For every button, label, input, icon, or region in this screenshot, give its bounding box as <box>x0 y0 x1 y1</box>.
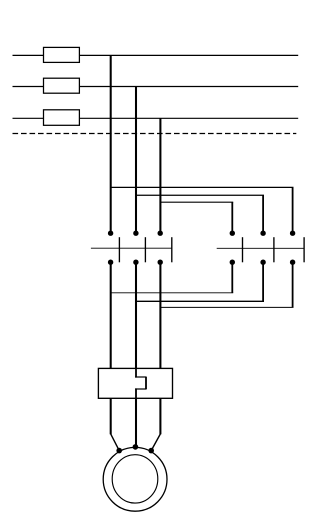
node: KM2 pole 1 top terminal <box>230 231 235 236</box>
wire: KM1 pole 2 output down to overload relay <box>135 262 137 369</box>
contactor KM1 pole 1 blade <box>118 237 120 262</box>
wire: phase B heater bump vertical (upper) <box>135 368 137 377</box>
wire: KM2 pole 3 output drop <box>292 262 294 307</box>
node: KM1 pole 3 top terminal <box>158 231 163 236</box>
contactor KM2 pole 1 blade <box>242 237 244 262</box>
wire: KM2 pole 2 output drop <box>262 262 264 301</box>
wire: branch L1 drop to KM2 pole 3 <box>292 187 294 233</box>
wire: L3 drop to contactor KM1 pole 3 <box>159 118 161 233</box>
contactor KM2 pole 2 blade <box>273 237 275 262</box>
node: KM1 pole 2 bottom terminal <box>133 260 138 265</box>
phase line L3 <box>13 117 299 119</box>
overload relay FR box <box>98 368 172 398</box>
motor M inner circle <box>112 455 158 503</box>
phase line L1 <box>13 54 299 56</box>
node: KM1 pole 1 bottom terminal <box>108 260 113 265</box>
contactor KM2 linkage bar <box>217 247 304 249</box>
wire: branch L2 across to KM2 pole 2 <box>136 194 264 196</box>
wire: motor lead T3 vertical <box>159 398 161 434</box>
wire: phase B heater bump bottom <box>135 388 147 390</box>
wire: motor lead T2 <box>135 398 137 447</box>
fuse F3 <box>44 110 80 126</box>
node: KM1 pole 3 bottom terminal <box>158 260 163 265</box>
fuse F2 <box>44 78 80 93</box>
wire: KM2 pole 1 output across to phase A bus <box>111 292 234 294</box>
wire: motor lead T1 diagonal <box>111 434 120 451</box>
wire: branch L3 drop to KM2 pole 1 <box>231 202 233 233</box>
node: KM1 pole 2 top terminal <box>133 231 138 236</box>
wire: KM2 pole 1 output drop <box>231 262 233 293</box>
wire: branch L1 across to KM2 pole 3 (phase swap) <box>111 186 294 188</box>
node: KM2 pole 3 top terminal <box>290 231 295 236</box>
wire: L2 drop to contactor KM1 pole 2 <box>135 87 137 234</box>
wire: KM1 pole 3 output down to overload relay <box>159 262 161 369</box>
wire: motor lead T1 vertical <box>110 398 112 434</box>
contactor KM1 linkage bar <box>91 247 172 249</box>
node: motor terminal T3 <box>148 448 154 454</box>
node: KM2 pole 2 top terminal <box>260 231 265 236</box>
node: KM2 pole 1 bottom terminal <box>230 260 235 265</box>
phase line L2 <box>13 86 299 88</box>
contactor KM2 pole 3 blade <box>303 237 305 262</box>
contactor KM1 pole 3 blade <box>171 237 173 262</box>
wire: branch L3 across to KM2 pole 1 (phase swap) <box>160 201 233 203</box>
wire: phase B heater bump right side <box>145 377 147 389</box>
node: KM2 pole 3 bottom terminal <box>290 260 295 265</box>
node: KM1 pole 1 top terminal <box>108 231 113 236</box>
wire: KM1 pole 1 output down to overload relay <box>110 262 112 369</box>
contactor KM1 pole 2 blade <box>144 237 146 262</box>
fuse F1 <box>44 47 80 62</box>
wire: phase B heater bump top <box>135 376 147 378</box>
neutral line N (dashed) <box>13 133 297 135</box>
node: KM2 pole 2 bottom terminal <box>260 260 265 265</box>
motor M outer circle <box>103 447 167 511</box>
wire: branch L2 drop to KM2 pole 2 <box>262 195 264 233</box>
wire: KM2 pole 2 output across to phase B bus <box>136 300 264 302</box>
wire: phase B heater bump vertical (lower) <box>135 388 137 398</box>
wire: motor lead T3 diagonal <box>151 434 160 451</box>
node: motor terminal T2 <box>133 444 139 450</box>
wire: KM2 pole 3 output across to phase C bus <box>160 306 293 308</box>
wire: L1 drop to contactor KM1 pole 1 <box>110 55 112 233</box>
node: motor terminal T1 <box>116 448 122 454</box>
